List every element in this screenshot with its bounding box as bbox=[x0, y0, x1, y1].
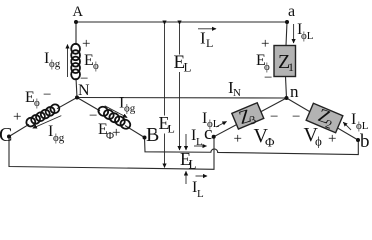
EL small arrow above B-line bbox=[185, 134, 187, 150]
label EL upper bbox=[173, 52, 192, 75]
coil generator phase B bbox=[97, 105, 132, 131]
arrow IL top bbox=[198, 28, 216, 30]
svg-text:N: N bbox=[233, 87, 241, 99]
wire N to B upper segment bbox=[77, 98, 100, 111]
svg-text:ϕ: ϕ bbox=[93, 60, 99, 72]
node A junction dot bbox=[74, 20, 78, 24]
node N junction dot bbox=[75, 96, 79, 100]
wire top A to a bbox=[76, 21, 287, 23]
wire a down to Z1 bbox=[286, 22, 287, 46]
svg-text:+: + bbox=[112, 125, 120, 141]
wire C down and bottom to c bbox=[9, 137, 214, 170]
arrow IL bottom bbox=[196, 175, 208, 177]
svg-text:1: 1 bbox=[288, 60, 294, 74]
node b junction dot bbox=[356, 138, 360, 142]
svg-text:L: L bbox=[196, 136, 203, 148]
wire coil to B bbox=[125, 126, 145, 138]
wire N to C upper segment bbox=[57, 98, 77, 109]
wire n to b diagonal bbox=[287, 98, 359, 140]
svg-text:−: − bbox=[80, 71, 88, 87]
node c junction dot bbox=[212, 135, 216, 139]
coil generator phase C bbox=[25, 103, 61, 128]
svg-text:−: − bbox=[264, 70, 272, 86]
arrow IphiL near c bbox=[216, 122, 227, 128]
svg-text:L: L bbox=[197, 188, 204, 200]
node a junction dot bbox=[285, 20, 289, 24]
svg-text:−: − bbox=[89, 108, 97, 124]
svg-text:C: C bbox=[0, 124, 12, 146]
svg-text:ϕg: ϕg bbox=[124, 103, 136, 115]
wire neutral N to n bbox=[77, 97, 287, 100]
EL small arrow below C-line bbox=[185, 171, 187, 184]
wire B down and right with hop bbox=[145, 138, 359, 155]
wire A down to coil bbox=[75, 22, 77, 45]
svg-text:ϕL: ϕL bbox=[356, 120, 369, 132]
svg-text:L: L bbox=[206, 36, 213, 50]
svg-text:ϕg: ϕg bbox=[49, 58, 61, 70]
svg-text:ϕ: ϕ bbox=[34, 97, 40, 109]
load Z3 box bbox=[232, 103, 264, 129]
svg-text:a: a bbox=[288, 3, 295, 20]
node n junction dot bbox=[285, 96, 289, 100]
node C junction dot bbox=[7, 135, 11, 139]
svg-text:ϕL: ϕL bbox=[207, 118, 220, 130]
svg-text:ϕg: ϕg bbox=[53, 132, 65, 144]
svg-text:+: + bbox=[13, 109, 21, 125]
label Z3 bbox=[237, 105, 258, 130]
svg-text:b: b bbox=[360, 131, 370, 152]
svg-text:+: + bbox=[328, 131, 336, 147]
node B junction dot bbox=[143, 136, 147, 140]
svg-text:−: − bbox=[270, 109, 278, 125]
arrow Iphig C branch bbox=[33, 116, 62, 129]
wire coil to C bbox=[9, 124, 29, 136]
EL long arrow A-line to C-line bbox=[164, 25, 166, 168]
svg-text:−: − bbox=[43, 87, 51, 103]
svg-text:L: L bbox=[189, 157, 197, 172]
svg-text:ϕL: ϕL bbox=[301, 30, 314, 42]
wire coil to N bbox=[76, 78, 77, 98]
arrow IphiL near b bbox=[343, 122, 351, 130]
svg-text:L: L bbox=[168, 122, 175, 136]
label Z2 bbox=[315, 105, 337, 132]
arrow Iphig B branch bbox=[105, 106, 127, 118]
load Z2 box bbox=[306, 103, 343, 133]
svg-text:Φ: Φ bbox=[265, 135, 275, 150]
svg-text:n: n bbox=[290, 82, 299, 101]
svg-text:+: + bbox=[82, 36, 90, 52]
measurement arrows bbox=[33, 24, 351, 184]
EL arrow A-line to B-line bbox=[179, 25, 181, 151]
svg-text:L: L bbox=[184, 60, 192, 75]
coil generator phase A bbox=[71, 44, 80, 80]
svg-text:A: A bbox=[73, 4, 84, 20]
svg-text:+: + bbox=[261, 36, 269, 52]
wire Z1 to n bbox=[286, 77, 287, 99]
arrow Iphig up beside top coil bbox=[67, 45, 69, 78]
svg-text:−: − bbox=[292, 109, 300, 125]
label EL middle bbox=[157, 113, 175, 136]
load Z1 box bbox=[274, 46, 296, 77]
svg-text:ϕ: ϕ bbox=[315, 134, 322, 149]
svg-text:+: + bbox=[234, 131, 242, 147]
arrow IphiL near a bbox=[293, 24, 295, 43]
wire n to c diagonal bbox=[214, 98, 287, 137]
arrow IL near c bbox=[194, 145, 207, 147]
